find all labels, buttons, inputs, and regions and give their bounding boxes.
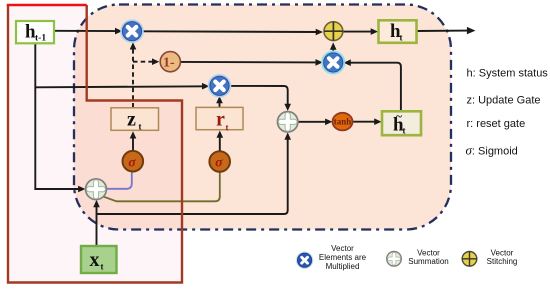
GRU cell dash-dot border bbox=[74, 5, 451, 230]
arrowhead into X2 right bbox=[344, 59, 351, 66]
wire: summation node B to tanh bbox=[298, 121, 329, 123]
svg-text:t: t bbox=[101, 262, 104, 272]
arrowhead into r_t bottom bbox=[217, 131, 224, 138]
wire: sigmoid 1 up to z_t box bbox=[132, 135, 134, 151]
highlighted input region (translucent pink stepped rectangle fill) bbox=[8, 5, 182, 283]
svg-text:σ: Sigmoid: σ: Sigmoid bbox=[466, 143, 518, 158]
svg-text:σ: σ bbox=[128, 155, 136, 170]
olive wire: summation node A to sigmoid 2 bbox=[102, 172, 220, 201]
wire: h_t-1 branch to multiply node X3 bbox=[35, 86, 206, 87]
svg-text:Vector: Vector bbox=[331, 244, 354, 253]
stitch node (yellow circle with cross) bbox=[324, 22, 343, 41]
svg-text:Vector: Vector bbox=[491, 248, 514, 257]
arrowhead into z_t bottom bbox=[130, 131, 137, 138]
legend icon: stitching circle bbox=[462, 251, 477, 266]
wire: stitch node to h_t box bbox=[343, 31, 375, 33]
wire: X1 output to stitch node (top rail) bbox=[142, 30, 320, 33]
legend caption: Vector Elements are Multiplied bbox=[319, 244, 367, 271]
wire: sigmoid 2 up to r_t box bbox=[219, 134, 221, 151]
box z_t (update gate) bbox=[111, 108, 159, 132]
arrowhead into h_t box bbox=[371, 28, 378, 35]
svg-text:t: t bbox=[400, 32, 403, 42]
wire: h_t-1 vertical feed line bbox=[34, 43, 36, 189]
svg-text:Elements are: Elements are bbox=[319, 253, 367, 262]
svg-text:~: ~ bbox=[396, 111, 402, 123]
arrowhead of h_t output bbox=[467, 27, 476, 34]
arrowhead into stitch node bbox=[316, 29, 323, 36]
wire: X3 output right then down to summation node B bbox=[230, 86, 288, 108]
dashed wire: z_t branch to 1- node bbox=[133, 61, 155, 63]
box h_t-1 bbox=[16, 21, 54, 44]
wire: tanh to candidate h box bbox=[353, 121, 379, 123]
wire: 1- node to multiply node X2 bbox=[181, 61, 320, 64]
svg-text:Multiplied: Multiplied bbox=[326, 262, 360, 271]
tanh node bbox=[333, 113, 353, 131]
svg-text:r: reset gate: r: reset gate bbox=[467, 118, 526, 130]
svg-text:h: System status: h: System status bbox=[467, 68, 549, 80]
blue wire: summation node A to sigmoid 1 bbox=[106, 172, 132, 189]
box x_t (input) bbox=[81, 246, 117, 273]
arrowhead into summation node B top bbox=[284, 104, 291, 111]
svg-text:z: Update Gate: z: Update Gate bbox=[467, 95, 541, 107]
arrowhead into candidate h box bbox=[374, 118, 381, 125]
svg-text:σ: σ bbox=[215, 156, 223, 171]
svg-text:Stitching: Stitching bbox=[487, 257, 518, 266]
svg-text:1-: 1- bbox=[163, 56, 175, 71]
sigmoid node 1 bbox=[123, 151, 144, 172]
GRU cell body (peach rounded rectangle fill) bbox=[74, 5, 451, 230]
arrowhead into X1 bbox=[115, 28, 122, 35]
highlight border (dark red step) bbox=[8, 5, 182, 283]
summation node B bbox=[278, 112, 298, 132]
svg-text:t-1: t-1 bbox=[35, 34, 46, 44]
wire: X2 up to stitch node bbox=[332, 45, 334, 53]
svg-text:tanh: tanh bbox=[334, 116, 352, 126]
svg-text:t: t bbox=[226, 123, 229, 133]
svg-text:x: x bbox=[90, 249, 100, 271]
sigmoid node 2 bbox=[209, 151, 230, 172]
arrowhead into X2 left bbox=[316, 59, 323, 66]
wire: r_t up to multiply node X3 bbox=[219, 99, 221, 107]
svg-text:t: t bbox=[139, 122, 142, 132]
multiply node X2 bbox=[322, 52, 344, 74]
wire: candidate h feedback up and left to X2 bbox=[347, 63, 401, 111]
arrowhead into X3 bbox=[202, 83, 209, 90]
box candidate h (h tilde) bbox=[382, 111, 421, 136]
arrowhead into tanh bbox=[325, 119, 332, 126]
arrowhead into summation node A bottom bbox=[93, 200, 100, 207]
wire: x_t rail right then up to summation node B bbox=[97, 136, 288, 215]
1- node bbox=[160, 52, 180, 72]
legend icon: summation circle bbox=[387, 251, 402, 266]
dashed wire: z_t up to multiply node X1 bbox=[132, 45, 134, 108]
wire: x_t up to summation node A bbox=[96, 203, 98, 247]
wire: h_t-1 to multiply node X1 bbox=[54, 30, 119, 32]
legend caption: Vector Stitching bbox=[487, 248, 518, 266]
arrowhead into X1 bottom bbox=[130, 42, 137, 49]
wire: h_t-1 branch to summation node A bbox=[34, 188, 82, 190]
arrowhead into summation node B bottom bbox=[284, 132, 291, 139]
legend icon: multiply circle bbox=[296, 251, 314, 269]
box r_t (reset gate) bbox=[196, 107, 243, 132]
svg-text:Summation: Summation bbox=[408, 257, 448, 266]
legend caption: Vector Summation bbox=[408, 248, 448, 266]
svg-text:r: r bbox=[216, 109, 225, 131]
multiply node X1 bbox=[121, 20, 143, 42]
box h_t (output) bbox=[379, 20, 417, 43]
highlight border top (bright red) bbox=[7, 4, 87, 7]
arrowhead into 1- node bbox=[152, 58, 159, 65]
arrowhead into X3 bottom bbox=[216, 96, 223, 103]
arrowhead into stitch node bottom bbox=[330, 42, 337, 49]
wire: h_t output leaving the cell bbox=[417, 30, 469, 32]
svg-text:Vector: Vector bbox=[417, 248, 440, 257]
svg-text:z: z bbox=[127, 108, 136, 130]
arrowhead into summation node A bbox=[78, 186, 85, 193]
summation node A bbox=[86, 179, 107, 200]
multiply node X3 bbox=[209, 75, 231, 97]
svg-text:t: t bbox=[403, 125, 406, 135]
